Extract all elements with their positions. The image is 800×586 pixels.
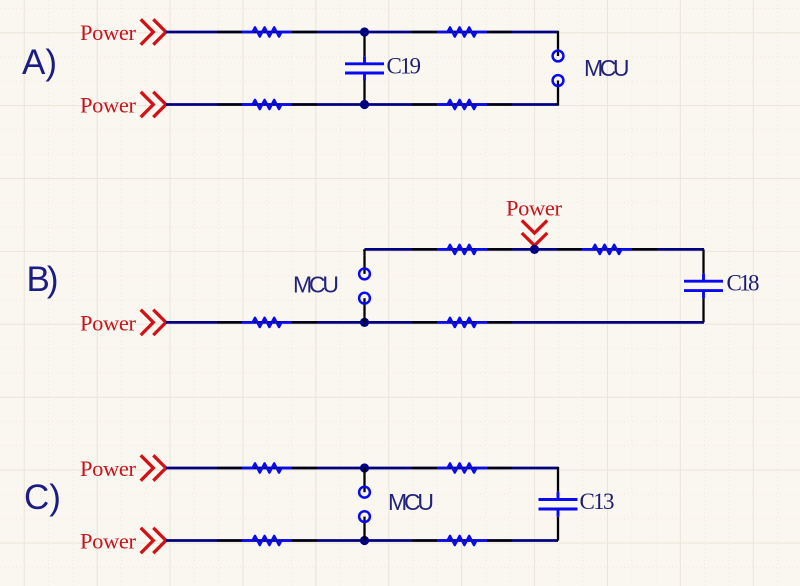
MCU pin A bottom bbox=[553, 75, 564, 86]
svg-text:C19: C19 bbox=[387, 53, 422, 78]
power port chevron (C bottom) bbox=[141, 528, 166, 553]
power port chevron (B bottom-left) bbox=[141, 310, 166, 335]
junction A bottom bbox=[360, 100, 369, 109]
svg-text:Power: Power bbox=[506, 196, 563, 221]
svg-text:Power: Power bbox=[80, 93, 137, 118]
svg-text:C): C) bbox=[24, 478, 61, 517]
svg-text:A): A) bbox=[22, 43, 57, 82]
resistor (trace) C top-right bbox=[412, 463, 512, 472]
wire A bottom rail bbox=[166, 103, 558, 106]
power port chevron (A bottom) bbox=[141, 92, 166, 117]
resistor (trace) B top-1 bbox=[412, 245, 512, 254]
junction B top (power entry) bbox=[530, 245, 539, 254]
wire B bottom rail bbox=[166, 321, 704, 324]
junction B bottom (MCU) bbox=[360, 318, 369, 327]
resistor (trace) B top-2 bbox=[557, 245, 657, 254]
resistor (trace) B bottom-left bbox=[217, 318, 317, 327]
wire B left riser (MCU side) bbox=[363, 249, 366, 250]
power port chevron (B top-middle, pointing down) bbox=[522, 220, 547, 245]
svg-text:Power: Power bbox=[80, 310, 137, 335]
wire C pin riser top bbox=[363, 468, 365, 492]
resistor (trace) C bottom-left bbox=[217, 536, 317, 545]
wire A bottom corner to pin bbox=[557, 81, 558, 105]
junction C bottom bbox=[360, 536, 369, 545]
svg-text:C18: C18 bbox=[727, 270, 760, 295]
wire B pin riser top bbox=[363, 249, 365, 274]
MCU pin C bottom bbox=[359, 511, 370, 522]
junction A top bbox=[360, 27, 369, 36]
power port chevron (A top) bbox=[141, 19, 166, 44]
svg-text:Power: Power bbox=[80, 456, 137, 481]
MCU pin B top bbox=[359, 269, 370, 280]
svg-text:B): B) bbox=[27, 260, 59, 299]
MCU pin B bottom bbox=[359, 293, 370, 304]
wire B pin riser bottom bbox=[363, 298, 365, 322]
resistor (trace) B bottom-right bbox=[412, 318, 512, 327]
wire A top rail bbox=[166, 31, 558, 34]
wire C pin riser bottom bbox=[363, 517, 365, 541]
junction C top bbox=[360, 463, 369, 472]
wire C top rail bbox=[166, 467, 558, 470]
MCU pin C top bbox=[359, 487, 370, 498]
resistor (trace) A bottom-right bbox=[412, 100, 512, 109]
svg-text:Power: Power bbox=[80, 529, 137, 554]
svg-text:MCU: MCU bbox=[293, 271, 339, 297]
capacitor C18 bbox=[684, 249, 723, 322]
svg-text:C13: C13 bbox=[580, 489, 615, 514]
capacitor C13 bbox=[539, 468, 578, 541]
resistor (trace) A top-left bbox=[217, 27, 317, 36]
resistor (trace) A top-right bbox=[412, 27, 512, 36]
power port chevron (C top) bbox=[141, 455, 166, 480]
svg-text:MCU: MCU bbox=[388, 489, 434, 515]
MCU pin A top bbox=[553, 51, 564, 62]
wire A top corner to pin bbox=[557, 32, 558, 56]
resistor (trace) A bottom-left bbox=[217, 100, 317, 109]
resistor (trace) C top-left bbox=[217, 463, 317, 472]
wire C bottom rail bbox=[166, 539, 558, 542]
resistor (trace) C bottom-right bbox=[412, 536, 512, 545]
svg-text:MCU: MCU bbox=[584, 55, 630, 81]
capacitor C19 bbox=[345, 32, 384, 105]
svg-text:Power: Power bbox=[80, 20, 137, 45]
wire B top rail bbox=[365, 248, 705, 251]
